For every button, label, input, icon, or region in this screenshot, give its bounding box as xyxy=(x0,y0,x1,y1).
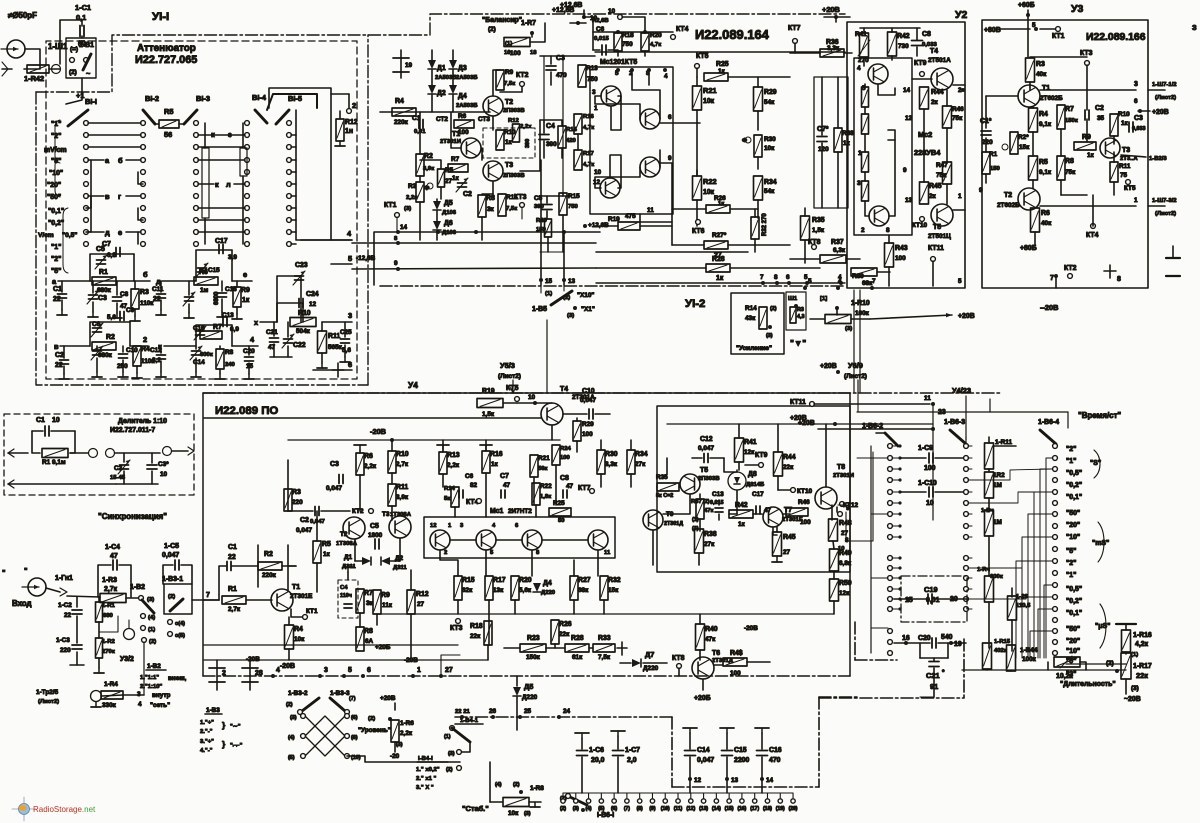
resistor R42 1к xyxy=(729,510,753,518)
resistor R44 2к xyxy=(920,87,929,109)
connector Тр xyxy=(91,691,102,702)
svg-text:10: 10 xyxy=(160,471,168,478)
divider5 outline xyxy=(277,276,301,322)
resistor R9 11к xyxy=(373,590,381,614)
svg-text:КТ5: КТ5 xyxy=(506,385,519,392)
output 1-Ш7-3/2 xyxy=(1148,205,1165,207)
svg-text:9,1к: 9,1к xyxy=(1039,169,1052,176)
wires middle rails xyxy=(540,120,562,126)
svg-text:18: 18 xyxy=(530,50,537,56)
svg-text:10: 10 xyxy=(838,546,845,552)
svg-text:2Т501А: 2Т501А xyxy=(928,57,951,64)
svg-text:47: 47 xyxy=(503,482,511,489)
svg-text:2Т301И: 2Т301И xyxy=(833,473,854,479)
capacitor C3 0.047 xyxy=(338,475,340,484)
capacitor C11 22 xyxy=(157,293,166,295)
svg-text:"10": "10" xyxy=(49,170,63,177)
resistor 1-26 110.5 xyxy=(1008,596,1017,620)
Мс1 internal wires xyxy=(595,96,640,119)
trimmer C22 xyxy=(284,338,293,340)
svg-text:С4: С4 xyxy=(546,123,555,130)
capacitor С16 470 xyxy=(761,728,763,733)
svg-text:С21: С21 xyxy=(266,329,278,336)
chain right vertical xyxy=(818,697,820,787)
svg-text:1-С6: 1-С6 xyxy=(589,747,604,754)
resistor R6 100 xyxy=(454,120,474,128)
transistor Т3 1Т308А xyxy=(389,516,411,538)
switch В1-3 arm xyxy=(184,110,197,124)
svg-text:(=): (=) xyxy=(70,46,78,53)
Мс1-2 wires xyxy=(450,539,476,541)
svg-text:"2": "2" xyxy=(1066,560,1076,567)
svg-text:R14: R14 xyxy=(745,305,757,312)
svg-text:2: 2 xyxy=(352,101,356,110)
svg-text:1-С10: 1-С10 xyxy=(918,480,937,487)
svg-text:5: 5 xyxy=(958,278,962,285)
connector У3/2 xyxy=(124,629,135,640)
input loop xyxy=(204,599,219,601)
svg-text:ВІ-2: ВІ-2 xyxy=(145,94,159,103)
capacitor C19 0.9 xyxy=(222,318,224,327)
svg-text:R17: R17 xyxy=(493,577,506,584)
svg-text:R7: R7 xyxy=(1065,106,1074,113)
wire diode row xyxy=(355,560,362,562)
svg-text:": " xyxy=(2,568,6,577)
divider3 outline xyxy=(90,322,130,346)
wire bus y617 xyxy=(204,659,488,661)
wire to connectors xyxy=(70,452,88,454)
1-В6-2 contact column right xyxy=(898,444,901,447)
resistor R1 2.7к xyxy=(222,596,246,604)
resistor R40 150 xyxy=(545,219,552,237)
bottom pin (18) xyxy=(766,793,768,798)
block И22.089.164 top border xyxy=(595,51,845,53)
svg-text:е: е xyxy=(118,228,122,237)
svg-text:75: 75 xyxy=(1120,172,1128,179)
testpoint КТ5 У4 xyxy=(515,397,520,402)
svg-text:R4: R4 xyxy=(1039,111,1048,118)
svg-text:0,047: 0,047 xyxy=(326,485,342,492)
resistor R50 12к xyxy=(830,579,839,601)
pot R30 10к xyxy=(754,135,762,157)
svg-text:10к: 10к xyxy=(508,810,519,817)
svg-text:г: г xyxy=(118,192,121,201)
wire output 6 bottom xyxy=(313,369,352,371)
svg-text:R40: R40 xyxy=(705,626,718,633)
В3 contacts right xyxy=(345,714,350,719)
wire T4 out pin2 xyxy=(953,84,965,86)
connector pin a xyxy=(89,449,98,458)
node 2 wire xyxy=(130,345,148,347)
resistor R18 22к xyxy=(484,621,492,645)
svg-text:-20В: -20В xyxy=(246,656,260,663)
svg-text:"Длительность": "Длительность" xyxy=(1060,681,1116,688)
svg-text:4,2к: 4,2к xyxy=(1135,641,1149,648)
svg-text:1-R3: 1-R3 xyxy=(102,577,117,584)
svg-text:Т1: Т1 xyxy=(1042,85,1050,92)
svg-text:28: 28 xyxy=(255,670,263,677)
svg-text:2Т602Б: 2Т602Б xyxy=(1040,95,1063,102)
logo RadioStorage.net xyxy=(23,797,25,821)
svg-text:3,9к: 3,9к xyxy=(423,166,434,172)
tbar R13 xyxy=(442,445,444,450)
svg-text:R32 270: R32 270 xyxy=(762,213,768,236)
svg-text:(2): (2) xyxy=(149,639,156,645)
svg-text:С2: С2 xyxy=(1095,105,1104,112)
wire row 14 with corner xyxy=(374,232,600,285)
svg-text:б: б xyxy=(118,156,123,165)
svg-text:": " xyxy=(24,566,28,575)
svg-text:Мс1201КТ5: Мс1201КТ5 xyxy=(600,59,637,66)
resistor R16 4.7к xyxy=(574,114,582,134)
svg-text:Д220: Д220 xyxy=(643,665,659,672)
svg-text:КТ7: КТ7 xyxy=(578,485,591,492)
svg-text:22 21: 22 21 xyxy=(455,709,470,715)
pot R14 5к xyxy=(451,487,459,507)
svg-text:С11: С11 xyxy=(152,286,164,293)
svg-text:(3): (3) xyxy=(448,751,455,757)
svg-text:С8: С8 xyxy=(120,291,129,298)
ground symbol У3 bottom xyxy=(1166,257,1180,259)
svg-text:470: 470 xyxy=(556,72,567,79)
svg-text:15к: 15к xyxy=(1019,144,1030,151)
wire bus y614 xyxy=(380,613,834,615)
svg-text:0,047: 0,047 xyxy=(698,445,714,452)
resistor R11 3.9к xyxy=(388,484,396,506)
resistor R8 3к xyxy=(478,195,486,217)
pin 9 Т8 xyxy=(840,502,845,507)
bottom pin (19) xyxy=(779,793,781,798)
svg-text:1к: 1к xyxy=(718,68,726,75)
svg-text:3." Х ": 3." Х " xyxy=(416,785,434,791)
resistor R26 22к xyxy=(551,620,559,644)
capacitor 1-С10 10 xyxy=(900,491,926,493)
svg-text:R38: R38 xyxy=(704,531,717,538)
svg-text:С7: С7 xyxy=(500,473,509,480)
wires lower network xyxy=(487,645,489,660)
svg-text:27: 27 xyxy=(841,530,849,537)
svg-text:3: 3 xyxy=(857,180,861,187)
svg-text:(2): (2) xyxy=(368,716,375,722)
В1-5 enclosure box xyxy=(269,88,331,240)
svg-text:1к: 1к xyxy=(1121,120,1129,127)
switch В1-2 arm xyxy=(143,110,155,124)
svg-text:Мс2: Мс2 xyxy=(918,130,932,139)
svg-text:(3): (3) xyxy=(567,313,574,319)
svg-text:"Усиление": "Усиление" xyxy=(736,345,772,352)
capacitor C6 0.015 xyxy=(601,45,603,55)
resistor R12 1к xyxy=(339,111,341,118)
svg-text:2П303В: 2П303В xyxy=(503,173,525,179)
svg-text:"mS": "mS" xyxy=(1092,540,1109,547)
svg-text:внутр: внутр xyxy=(152,692,171,699)
svg-text:27к: 27к xyxy=(635,461,646,468)
svg-text:R5: R5 xyxy=(164,107,173,116)
svg-text:"сеть": "сеть" xyxy=(150,702,170,709)
svg-text:+20Б: +20Б xyxy=(694,695,711,702)
svg-text:27: 27 xyxy=(417,601,425,608)
svg-text:4."-": 4."-" xyxy=(200,748,213,754)
svg-text:(2): (2) xyxy=(1106,660,1114,667)
svg-text:КТ3: КТ3 xyxy=(450,625,463,632)
svg-text:+60Б: +60Б xyxy=(1018,2,1035,9)
svg-text:Д1: Д1 xyxy=(344,554,353,561)
wire balance to +12.6В xyxy=(530,23,545,42)
svg-text:И22.727.065: И22.727.065 xyxy=(135,54,197,66)
svg-text:1-Вч: 1-Вч xyxy=(981,508,994,514)
svg-text:12: 12 xyxy=(905,115,913,122)
svg-text:"50": "50" xyxy=(47,194,61,201)
svg-text:75к: 75к xyxy=(1065,169,1076,176)
diode Д4 2А503Б xyxy=(449,85,457,94)
capacitor С14 0.047 xyxy=(689,728,691,733)
svg-text:750: 750 xyxy=(568,204,579,210)
transistor Т2 1Т308А xyxy=(343,517,365,539)
svg-text:(2): (2) xyxy=(513,782,520,788)
svg-text:Д8: Д8 xyxy=(748,471,757,478)
svg-text:(3): (3) xyxy=(147,597,154,603)
svg-text:R6: R6 xyxy=(364,453,373,460)
svg-text:270к: 270к xyxy=(102,649,115,655)
svg-text:(20): (20) xyxy=(789,806,798,812)
1-В6-3 contact column xyxy=(964,444,969,449)
capacitor 1-С7 2.0 xyxy=(617,731,619,736)
resistor R6 2.2к xyxy=(356,453,364,475)
svg-text:540: 540 xyxy=(941,634,953,641)
svg-text:"Стаб.": "Стаб." xyxy=(462,804,489,813)
svg-text:22: 22 xyxy=(53,296,61,303)
svg-text:"0,2": "0,2" xyxy=(48,220,64,227)
resistor R11 7.5к xyxy=(498,194,506,216)
wire diode column xyxy=(431,70,433,85)
module У4 chain border xyxy=(203,392,1000,394)
svg-text:0,047: 0,047 xyxy=(162,552,179,559)
svg-text:13к: 13к xyxy=(493,587,504,594)
svg-text:2к: 2к xyxy=(931,99,939,106)
svg-text:R3: R3 xyxy=(797,307,804,313)
svg-text:1-В6-2: 1-В6-2 xyxy=(862,423,883,430)
wire T1 collector xyxy=(287,545,289,591)
resistor R29 54к xyxy=(754,87,763,111)
svg-text:Ф: Ф xyxy=(742,138,747,144)
svg-text:R3: R3 xyxy=(408,183,417,190)
В1-3 vertical strip right xyxy=(240,148,247,176)
svg-text:(2): (2) xyxy=(69,69,77,76)
resistor R25 1к xyxy=(704,73,728,81)
resistor 1-R13 1М xyxy=(985,510,994,536)
wire уровень xyxy=(394,742,396,752)
diode Д5 Д220 xyxy=(513,687,521,696)
svg-text:У5/3: У5/3 xyxy=(500,361,515,370)
resistor R31 54к xyxy=(754,176,763,200)
svg-text:2: 2 xyxy=(222,670,226,677)
svg-text:R7: R7 xyxy=(364,590,373,597)
svg-text:С3: С3 xyxy=(98,295,107,302)
svg-text:1-С9: 1-С9 xyxy=(918,445,933,452)
svg-text:4: 4 xyxy=(838,278,842,285)
switch В1-1 contact column wires xyxy=(84,121,89,126)
svg-text:11: 11 xyxy=(604,550,611,556)
pot R2* 15к xyxy=(1010,132,1018,154)
svg-text:11к: 11к xyxy=(382,602,393,609)
svg-text:2П303В: 2П303В xyxy=(503,108,525,114)
svg-text:С14: С14 xyxy=(697,747,710,754)
svg-text:Д4: Д4 xyxy=(543,580,552,587)
svg-text:КТ3: КТ3 xyxy=(1080,50,1093,57)
svg-text:2П303В: 2П303В xyxy=(698,476,720,482)
vertical bus x966 xyxy=(965,412,967,440)
svg-text:1-R4: 1-R4 xyxy=(104,681,118,688)
svg-text:Д220: Д220 xyxy=(541,590,556,596)
capacitor C17 xyxy=(218,245,220,254)
resistor 1-R15 402к xyxy=(983,643,992,669)
svg-text:Т3: Т3 xyxy=(505,162,513,169)
resistor 1-R4 330к xyxy=(101,691,123,699)
svg-text:2к: 2к xyxy=(929,193,937,200)
wire С3 R13 top rail xyxy=(540,55,595,57)
ladder link в-г xyxy=(88,195,104,197)
bottom pin (2) xyxy=(562,793,564,798)
switch В1-5 arm xyxy=(276,110,289,124)
svg-text:10: 10 xyxy=(528,394,536,401)
resistor R8 75к xyxy=(1057,156,1065,180)
switch 1-В1 box xyxy=(66,38,96,78)
resistor R7 150к xyxy=(1057,105,1065,129)
wire C1 into box xyxy=(81,36,83,38)
svg-text:6: 6 xyxy=(786,274,790,281)
module chain border bottom xyxy=(455,716,672,718)
svg-text:2,2к: 2,2к xyxy=(406,195,417,201)
resistor R30 3.3к xyxy=(597,450,605,474)
svg-text:680: 680 xyxy=(103,613,114,619)
svg-text:R17: R17 xyxy=(583,151,595,157)
capacitor C7* 120 xyxy=(817,136,827,138)
svg-text:[1]: [1] xyxy=(820,296,827,302)
svg-text:22к: 22к xyxy=(559,631,570,638)
wire T5 out pin1 xyxy=(953,209,965,211)
vertical feed 13 xyxy=(563,232,565,285)
resistor R23 150к xyxy=(520,644,546,652)
svg-text:"Х10": "Х10" xyxy=(577,292,594,299)
feedthrough cap pin 2 xyxy=(216,660,218,690)
svg-text:1М: 1М xyxy=(993,519,1002,526)
svg-text:Т1: Т1 xyxy=(292,584,300,591)
svg-text:ВІ-4: ВІ-4 xyxy=(252,93,267,102)
block У3 box xyxy=(982,20,1148,288)
svg-text:1к: 1к xyxy=(242,297,250,304)
svg-text:75к: 75к xyxy=(936,172,947,179)
svg-text:ВІ-3: ВІ-3 xyxy=(196,94,210,103)
wire pin 4 row xyxy=(301,239,352,241)
svg-text:2: 2 xyxy=(143,335,147,344)
svg-text:1-С4: 1-С4 xyxy=(105,544,120,551)
svg-text:R4: R4 xyxy=(141,346,150,353)
diode Д7 Д220 xyxy=(632,659,641,667)
svg-text:КТ3: КТ3 xyxy=(514,194,527,201)
chain corner right xyxy=(671,717,673,787)
svg-text:"50": "50" xyxy=(1066,510,1080,517)
svg-text:R7: R7 xyxy=(451,156,460,163)
node б wire xyxy=(134,280,150,282)
svg-text:"Синхронизация": "Синхронизация" xyxy=(98,512,167,521)
svg-text:Д2: Д2 xyxy=(437,90,446,97)
svg-text:R11: R11 xyxy=(1119,163,1131,170)
svg-text:R27*: R27* xyxy=(712,232,727,239)
trimmer C14 600к xyxy=(192,350,201,352)
svg-text:КТ9: КТ9 xyxy=(755,452,768,459)
svg-text:R28: R28 xyxy=(571,635,584,642)
svg-text:390: 390 xyxy=(546,141,557,148)
svg-text:5к С=2: 5к С=2 xyxy=(656,493,673,499)
svg-text:6: 6 xyxy=(367,667,371,674)
svg-text:22к: 22к xyxy=(470,633,481,640)
bottom pin (12) xyxy=(690,793,692,798)
svg-text:5,6к: 5,6к xyxy=(519,587,532,594)
svg-text:1: 1 xyxy=(858,150,862,157)
divider2 outline xyxy=(196,250,232,281)
input arrow xyxy=(2,68,12,70)
svg-text:Аттенюатор: Аттенюатор xyxy=(137,43,196,54)
svg-text:27: 27 xyxy=(445,667,453,674)
svg-text:0,047: 0,047 xyxy=(580,397,596,404)
svg-text:"Уровень": "Уровень" xyxy=(358,727,391,734)
svg-text:С8: С8 xyxy=(922,31,931,38)
svg-text:1-В4-1: 1-В4-1 xyxy=(460,718,479,724)
box pin 6 xyxy=(361,674,365,678)
svg-text:0,9: 0,9 xyxy=(230,326,239,333)
capacitor C8 0.033 xyxy=(912,40,923,42)
svg-text:Д6: Д6 xyxy=(444,220,453,227)
svg-text:390: 390 xyxy=(525,139,531,148)
block И22.089.164 bottom edge xyxy=(596,282,845,284)
chain pin 26 xyxy=(491,715,495,719)
В1-3 vertical strip left xyxy=(202,148,209,218)
svg-text:600к: 600к xyxy=(990,574,1003,580)
wire В5 to У4 xyxy=(546,320,548,392)
svg-text:~: ~ xyxy=(86,69,91,78)
resistor R44 22к xyxy=(774,452,783,476)
block У2 box xyxy=(847,22,965,288)
transistor Q4 Мс1 xyxy=(600,178,620,198)
svg-text:Д220: Д220 xyxy=(522,694,538,701)
long wire output 5 row xyxy=(352,268,596,269)
svg-text:110,5: 110,5 xyxy=(1016,603,1031,609)
svg-text:420: 420 xyxy=(566,138,577,144)
svg-text:0,015: 0,015 xyxy=(710,500,724,506)
svg-text:11: 11 xyxy=(924,395,931,402)
wire В6-2 feed xyxy=(857,457,871,459)
svg-text:(7): (7) xyxy=(624,806,630,812)
wire В2-2 down xyxy=(143,642,145,695)
svg-text:Д106: Д106 xyxy=(442,230,457,236)
svg-text:R16: R16 xyxy=(490,451,503,458)
resistor 1-R42 xyxy=(27,65,49,73)
svg-text:(4): (4) xyxy=(495,782,502,788)
svg-text:в: в xyxy=(105,192,110,201)
svg-text:-20В: -20В xyxy=(744,625,758,632)
svg-text:С1: С1 xyxy=(53,286,62,293)
svg-text:2А503Б: 2А503Б xyxy=(456,75,478,81)
svg-text:R30: R30 xyxy=(764,136,776,143)
capacitor C21 47 xyxy=(270,337,279,339)
svg-text:(8): (8) xyxy=(351,735,358,741)
wire R26 row xyxy=(672,208,706,210)
diode Д3 2А503Б xyxy=(452,50,454,60)
svg-text:750: 750 xyxy=(587,76,598,83)
svg-text:1-R6: 1-R6 xyxy=(400,720,414,727)
svg-text:УІ-І: УІ-І xyxy=(152,11,169,23)
svg-text:Ш1: Ш1 xyxy=(788,296,798,302)
